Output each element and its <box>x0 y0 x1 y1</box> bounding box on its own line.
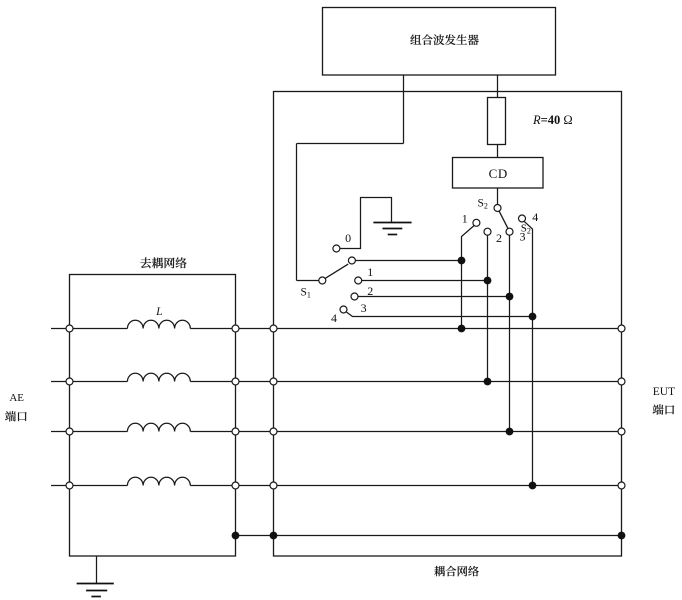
label AE 端口 <box>5 411 27 422</box>
junction PE x coupling edge <box>270 532 278 540</box>
wire line 3 to box edge <box>190 431 232 433</box>
S1 contact 3 <box>351 293 358 300</box>
wire left output horizontal <box>297 143 404 145</box>
wire line 3 coupling segment <box>277 431 618 433</box>
S2 contact 1 <box>473 219 480 226</box>
node line 3 EUT terminal <box>618 428 625 435</box>
svg-text:2: 2 <box>496 231 502 245</box>
wire S2-4 down <box>524 221 532 485</box>
inductor L2 <box>127 373 190 381</box>
svg-text:S1: S1 <box>301 286 311 299</box>
svg-text:AE: AE <box>9 392 24 404</box>
wire S2-2 down <box>487 235 489 381</box>
svg-text:L: L <box>155 306 162 318</box>
svg-text:S2: S2 <box>478 198 488 211</box>
junction PE x EUT edge <box>618 532 626 540</box>
switch S1 common contact <box>319 277 326 284</box>
node line 1 decoupling right terminal <box>232 325 239 332</box>
wire S1-2 line <box>362 280 488 282</box>
wire line 2 coupling segment <box>277 381 618 383</box>
inductor L1 <box>127 320 190 328</box>
inductor L4 <box>127 477 190 485</box>
wire line 1 coupling segment <box>277 328 618 330</box>
S1 contact 0 <box>333 245 340 252</box>
junction S1 line3 x S2-3 <box>506 293 514 301</box>
junction S2-2 x L2 <box>484 378 492 386</box>
junction S1 line4 x S2-4 <box>529 313 537 321</box>
S1 contact 4 <box>340 306 347 313</box>
wire S2-1 down <box>462 226 475 329</box>
wire generator left output down <box>403 75 405 144</box>
wire S1-3 line <box>358 296 509 298</box>
node line 4 decoupling left terminal <box>66 482 73 489</box>
wire S2-3 down <box>509 235 511 431</box>
S2 contact 3 <box>506 228 513 235</box>
CD box (coupling device) <box>453 158 544 189</box>
node line 3 coupling left terminal <box>270 428 277 435</box>
wire line 4 between boxes <box>239 485 270 487</box>
junction S2-4 x L4 <box>529 482 537 490</box>
svg-text:EUT: EUT <box>653 386 675 398</box>
wire line 1 AE stub <box>51 328 66 330</box>
ground (PE earth) <box>77 584 114 597</box>
node line 4 coupling left terminal <box>270 482 277 489</box>
junction S2-1 x L1 <box>458 325 466 333</box>
node line 1 decoupling left terminal <box>66 325 73 332</box>
wire line 4 AE stub <box>51 485 66 487</box>
switch S1 arm <box>325 264 348 278</box>
wire S1-4 line <box>346 312 532 317</box>
node line 1 EUT terminal <box>618 325 625 332</box>
S1 contact 1 <box>348 257 355 264</box>
wire line 1 decoupling segment <box>73 328 127 330</box>
coupling network outer box <box>274 92 622 557</box>
wire down to S1 level <box>296 144 298 281</box>
wire line 4 coupling segment <box>277 485 618 487</box>
wire S1-0 to ground <box>340 198 392 249</box>
label EUT 端口 <box>653 404 675 415</box>
junction S2-3 x L3 <box>506 428 514 436</box>
decoupling network box <box>70 275 236 557</box>
wire line 3 decoupling segment <box>73 431 127 433</box>
svg-text:4: 4 <box>532 210 538 224</box>
switch S2 common contact <box>494 205 501 212</box>
junction PE x decoupling edge <box>232 532 240 540</box>
svg-text:3: 3 <box>520 229 526 243</box>
label 去耦网络 <box>140 257 186 268</box>
resistor R=40 <box>488 98 506 145</box>
node line 3 decoupling left terminal <box>66 428 73 435</box>
node line 2 decoupling right terminal <box>232 378 239 385</box>
node line 2 coupling left terminal <box>270 378 277 385</box>
S2 contact 4 <box>519 215 526 222</box>
wire generator right output <box>497 75 499 98</box>
S1 contact 2 <box>355 277 362 284</box>
wire to S1 common <box>297 280 319 282</box>
svg-text:3: 3 <box>361 301 367 315</box>
label 组合波发生器 <box>410 34 478 45</box>
node line 3 decoupling right terminal <box>232 428 239 435</box>
wire line 1 between boxes <box>239 328 270 330</box>
wire line 2 AE stub <box>51 381 66 383</box>
generator box 组合波发生器 <box>323 8 556 76</box>
node line 2 decoupling left terminal <box>66 378 73 385</box>
svg-text:0: 0 <box>345 231 351 245</box>
wire line 2 decoupling segment <box>73 381 127 383</box>
wire resistor to CD <box>497 145 499 158</box>
wire S1-1 line <box>356 260 462 262</box>
wire line 3 between boxes <box>239 431 270 433</box>
junction S1 line2 x S2-2 <box>484 277 492 285</box>
switch S2 arm <box>499 211 508 229</box>
ground (surge return) <box>373 223 411 235</box>
svg-text:1: 1 <box>367 265 373 279</box>
svg-text:1: 1 <box>462 211 468 225</box>
wire ground stem <box>96 556 98 584</box>
node line 4 decoupling right terminal <box>232 482 239 489</box>
wire PE line <box>236 535 622 537</box>
wire CD to S2 common <box>497 188 499 205</box>
node line 1 coupling left terminal <box>270 325 277 332</box>
wire line 3 AE stub <box>51 431 66 433</box>
svg-text:CD: CD <box>489 166 508 181</box>
wire line 2 between boxes <box>239 381 270 383</box>
label 耦合网络 <box>434 566 479 576</box>
junction S1 line1 x S2-1 <box>458 257 466 265</box>
S2 contact 2 <box>484 228 491 235</box>
inductor L3 <box>127 423 190 431</box>
node line 4 EUT terminal <box>618 482 625 489</box>
wire line 4 decoupling segment <box>73 485 127 487</box>
wire line 2 to box edge <box>190 381 232 383</box>
svg-text:R=40 Ω: R=40 Ω <box>532 113 573 127</box>
node line 2 EUT terminal <box>618 378 625 385</box>
wire line 1 to box edge <box>190 328 232 330</box>
wire line 4 to box edge <box>190 485 232 487</box>
svg-text:4: 4 <box>331 311 337 325</box>
